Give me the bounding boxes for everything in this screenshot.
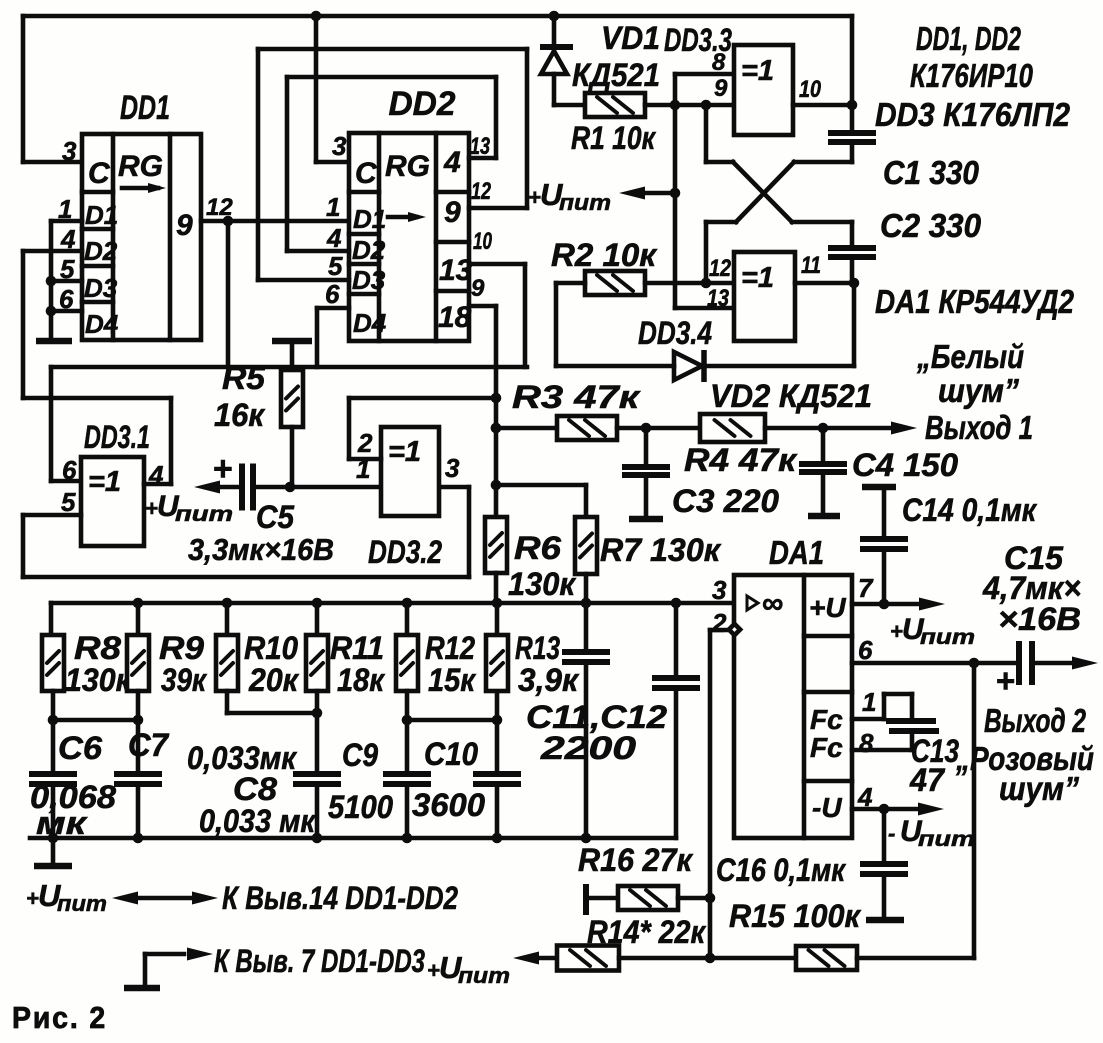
wire R14 left lead bbox=[532, 956, 557, 961]
node bus junction R12 bbox=[402, 598, 413, 609]
resistor R12 bbox=[396, 635, 418, 691]
node +Uпит junction bbox=[670, 188, 681, 199]
svg-text:RG: RG bbox=[118, 150, 163, 183]
svg-text:RG: RG bbox=[385, 150, 430, 183]
label C6 bbox=[58, 730, 102, 766]
wire DD2 pin6 D4 tap bbox=[317, 308, 349, 367]
wire DA1 pin6 output bbox=[852, 661, 1015, 666]
svg-text:6: 6 bbox=[858, 635, 873, 665]
svg-text:D1: D1 bbox=[353, 204, 386, 234]
pin 7 label DA1 bbox=[858, 573, 874, 603]
double arrow to DD supply bbox=[112, 892, 218, 905]
svg-text:×16В: ×16В bbox=[998, 601, 1081, 637]
wire R12 bottom bbox=[405, 691, 410, 720]
wire DD1 output pin9 to DD2 D1 bbox=[201, 219, 349, 224]
resistor R7 bbox=[575, 517, 597, 574]
svg-text:R1 10к: R1 10к bbox=[571, 120, 656, 156]
svg-text:2200: 2200 bbox=[540, 730, 637, 766]
svg-text:C16 0,1мк: C16 0,1мк bbox=[716, 852, 847, 888]
node DD3.3 pin9 junction bbox=[701, 100, 712, 111]
xor gate DD3.1 bbox=[81, 419, 150, 546]
label C4 150 bbox=[852, 447, 958, 483]
pin 11 label DD3.4 bbox=[801, 252, 821, 279]
wire DD3.1 pin5 from DD3.2 output bbox=[23, 487, 469, 577]
chassis bar above R5 bbox=[272, 341, 312, 370]
label C7 bbox=[128, 727, 170, 763]
shift register DD2 bbox=[349, 85, 473, 341]
svg-text:6: 6 bbox=[62, 455, 77, 485]
wire DD3.2 pin2 loop from out18 column bbox=[349, 398, 496, 459]
wire DD1 D1-D4 common vertical bbox=[49, 221, 54, 338]
svg-text:R4 47к: R4 47к bbox=[684, 442, 798, 478]
svg-text:D4: D4 bbox=[85, 309, 119, 339]
label C15 bbox=[1004, 540, 1064, 576]
label C2 330 bbox=[880, 207, 982, 244]
svg-text:К Выв.14 DD1-DD2: К Выв.14 DD1-DD2 bbox=[222, 880, 458, 916]
svg-text:3: 3 bbox=[332, 131, 347, 161]
capacitor C14 bbox=[860, 487, 908, 604]
svg-text:шум”: шум” bbox=[999, 770, 1079, 807]
label C16 0,1мк bbox=[716, 852, 847, 888]
pin 12 label DD2 out9 bbox=[471, 178, 491, 205]
wire DD2 out18 column bbox=[469, 306, 496, 517]
svg-text:R12: R12 bbox=[425, 630, 475, 666]
wire R7 bottom bbox=[584, 574, 589, 603]
node R16 junction bbox=[705, 893, 716, 904]
pin 1 label DD2 bbox=[326, 192, 340, 222]
node bus junction C12 bbox=[671, 598, 682, 609]
svg-text:Выход 1: Выход 1 bbox=[925, 409, 1033, 446]
label R7 130к bbox=[600, 532, 722, 568]
label R11 bbox=[330, 630, 384, 666]
svg-text:Выход 2: Выход 2 bbox=[984, 702, 1086, 739]
wire DD1 pin6 D4 bbox=[51, 309, 82, 314]
node R11 C8 junction bbox=[312, 708, 323, 719]
svg-text:5: 5 bbox=[328, 251, 343, 281]
svg-text:+U: +U bbox=[809, 592, 846, 623]
svg-text:13: 13 bbox=[707, 285, 730, 312]
resistor R10 bbox=[216, 635, 238, 691]
label К176ИР10 bbox=[910, 57, 1033, 94]
caption Рис. 2 bbox=[12, 1000, 107, 1035]
svg-text:130к: 130к bbox=[65, 662, 133, 698]
wire R5 bottom bbox=[290, 427, 295, 487]
svg-text:DA1: DA1 bbox=[769, 534, 824, 571]
svg-text:5100: 5100 bbox=[328, 789, 393, 825]
arrow output 1 bbox=[891, 422, 917, 435]
svg-text:9: 9 bbox=[714, 75, 728, 102]
svg-text:R11: R11 bbox=[330, 630, 384, 666]
svg-text:R16 27к: R16 27к bbox=[578, 842, 694, 878]
label +Uпит pin7 bbox=[890, 613, 975, 649]
label C7 value bbox=[187, 740, 298, 776]
wire DD3.4 output down to VD2 line bbox=[708, 283, 854, 366]
label C11 C12 bbox=[526, 699, 667, 735]
svg-text:9: 9 bbox=[444, 196, 461, 229]
label R12 bbox=[425, 630, 475, 666]
label R9 bbox=[159, 630, 204, 666]
pin 6 label DD3.1 bbox=[62, 455, 77, 485]
label R4 47к bbox=[684, 442, 798, 478]
pin 8 label DD3.3 bbox=[712, 49, 726, 76]
svg-text:C3 220: C3 220 bbox=[672, 483, 779, 519]
op-amp DA1 bbox=[734, 534, 852, 838]
wire bottom bus bbox=[30, 836, 676, 841]
resistor R9 bbox=[127, 635, 149, 691]
pin 3 label DD2 bbox=[332, 131, 347, 161]
label R6 bbox=[514, 530, 561, 566]
label C10 bbox=[424, 736, 478, 772]
svg-text:Fc: Fc bbox=[810, 704, 843, 735]
wire out18 column to R3 bbox=[496, 426, 557, 431]
label C3 220 bbox=[672, 483, 779, 519]
wire top rail right corner down to DD3.3 output bbox=[850, 16, 855, 105]
svg-text:R13: R13 bbox=[515, 630, 560, 666]
svg-text:15к: 15к bbox=[428, 662, 477, 698]
label C8 bbox=[233, 771, 277, 807]
label R8 bbox=[74, 630, 121, 666]
pin 13 label DD2 out4 bbox=[470, 133, 490, 160]
wire ground к выв 7 bbox=[124, 954, 184, 988]
pin 9 label DD2 out18 bbox=[471, 275, 485, 302]
label VD1 type КД521 bbox=[572, 57, 660, 93]
svg-text:3600: 3600 bbox=[412, 787, 485, 823]
resistor R8 bbox=[42, 635, 64, 691]
label C15 value1 bbox=[982, 570, 1081, 606]
pin 5 label DD3.1 bbox=[61, 487, 76, 517]
wire tap line bbox=[51, 365, 527, 370]
wire R12 top stub bbox=[405, 603, 410, 635]
svg-text:Fc: Fc bbox=[810, 732, 843, 763]
wire DD1 pin4 D2 from feedback bbox=[23, 249, 82, 254]
wire +U column corner to DD3.4 pin13 bbox=[675, 306, 734, 311]
label R15 100к bbox=[729, 898, 862, 934]
polarity plus of C15 bbox=[996, 662, 1015, 699]
svg-text:1: 1 bbox=[326, 192, 340, 222]
svg-text:R10: R10 bbox=[244, 630, 298, 666]
svg-text:C4 150: C4 150 bbox=[852, 447, 958, 483]
svg-text:R9: R9 bbox=[159, 630, 204, 666]
label +Uпит R14 bbox=[427, 950, 510, 988]
pin 6 label DA1 bbox=[858, 635, 873, 665]
svg-text:DD3.4: DD3.4 bbox=[638, 315, 712, 351]
resistor R16 bbox=[618, 886, 678, 910]
svg-text:пит: пит bbox=[57, 891, 107, 916]
pin 4 label DD3.1 bbox=[148, 460, 164, 490]
svg-text:DD3 К176ЛП2: DD3 К176ЛП2 bbox=[875, 96, 1071, 133]
label C6 value bbox=[30, 779, 116, 841]
svg-text:9: 9 bbox=[176, 209, 193, 242]
svg-text:8: 8 bbox=[859, 728, 874, 758]
pin 10 label DD2 out13 bbox=[473, 228, 492, 255]
wire R13 bottom bbox=[495, 692, 500, 720]
label C8 value bbox=[199, 803, 317, 839]
node DD3.4 pin12 junction bbox=[701, 278, 712, 289]
wire R10 top stub bbox=[225, 603, 230, 635]
label +Uпит bottom left bbox=[26, 878, 107, 916]
node bus junction R11 bbox=[312, 598, 323, 609]
svg-text:6: 6 bbox=[325, 279, 340, 309]
label R10 value bbox=[248, 662, 300, 698]
svg-text:VD2 КД521: VD2 КД521 bbox=[710, 378, 872, 414]
wire R11 top stub bbox=[315, 603, 320, 635]
wire R1 to DD3.3 pin9 bbox=[645, 103, 734, 108]
svg-text:пит: пит bbox=[175, 503, 233, 526]
label VD2 КД521 bbox=[710, 378, 872, 414]
svg-text:C7: C7 bbox=[128, 727, 170, 763]
pin 6 label DD1 bbox=[59, 284, 74, 314]
node DD1 pin5 junction bbox=[46, 276, 57, 287]
label C9 value bbox=[328, 789, 393, 825]
pin 12 label DD3.4 bbox=[709, 255, 732, 282]
node R5-C5 junction bbox=[285, 482, 296, 493]
node bottom bus x53 bbox=[48, 833, 59, 844]
resistor R14 bbox=[557, 946, 619, 971]
pin 1 label DA1 bbox=[862, 687, 876, 717]
wire DA1 pin4 bbox=[852, 807, 918, 812]
svg-text:C: C bbox=[355, 157, 378, 190]
label C13 bbox=[911, 733, 959, 769]
pin 8 label DA1 bbox=[859, 728, 874, 758]
resistor R1 bbox=[585, 93, 645, 117]
pin 6 label DD2 bbox=[325, 279, 340, 309]
svg-text:DD1: DD1 bbox=[120, 89, 170, 127]
svg-text:3: 3 bbox=[712, 575, 727, 605]
svg-text:18к: 18к bbox=[337, 662, 386, 698]
wire DD2 out13 drop to tap line bbox=[469, 264, 525, 367]
wire R16 left lead bbox=[589, 896, 618, 901]
label +Uпит top bbox=[528, 177, 611, 215]
node bottom bus x497 bbox=[492, 833, 503, 844]
wire R16 right lead bbox=[678, 896, 710, 901]
svg-text:D3: D3 bbox=[84, 273, 118, 303]
wire R6 bottom bbox=[494, 573, 499, 603]
label white noise line1 bbox=[916, 338, 1024, 375]
wire R6 R7 top link bbox=[496, 485, 586, 517]
svg-text:R2 10к: R2 10к bbox=[551, 237, 658, 273]
svg-text:мк: мк bbox=[36, 805, 88, 841]
node C3 junction bbox=[641, 423, 652, 434]
wire C15 to output 2 bbox=[1036, 661, 1077, 666]
wire DA1 pin8 loop bbox=[852, 733, 912, 750]
node bottom bus x407 bbox=[402, 833, 413, 844]
svg-text:3,3мк×16В: 3,3мк×16В bbox=[188, 532, 334, 567]
label R5 value 16к bbox=[214, 397, 266, 433]
svg-text:12: 12 bbox=[471, 178, 491, 205]
capacitor C3 bbox=[622, 428, 670, 519]
wire DA1 pin7 bbox=[852, 602, 922, 607]
resistor R5 bbox=[281, 370, 303, 427]
svg-text:1: 1 bbox=[862, 687, 876, 717]
node R1 right junction bbox=[670, 100, 681, 111]
capacitor C10 bbox=[473, 720, 521, 838]
arrow +Uпит R14 bbox=[513, 952, 539, 965]
svg-text:пит: пит bbox=[918, 828, 975, 851]
svg-text:DD2: DD2 bbox=[389, 85, 456, 123]
svg-text:3,9к: 3,9к bbox=[518, 662, 580, 698]
svg-text:пит: пит bbox=[458, 963, 510, 988]
capacitor C15 bbox=[1019, 641, 1032, 685]
svg-text:„Белый: „Белый bbox=[916, 338, 1024, 375]
label К Выв.7 DD1-DD3 bbox=[214, 943, 425, 979]
svg-text:DA1 КР544УД2: DA1 КР544УД2 bbox=[875, 283, 1075, 320]
resistor R4 bbox=[700, 414, 765, 442]
label C11 C12 value 2200 bbox=[540, 730, 637, 766]
inverting input mark bbox=[729, 624, 740, 635]
svg-text:К176ИР10: К176ИР10 bbox=[910, 57, 1033, 94]
pin 2 label DD3.2 bbox=[357, 428, 373, 458]
pin 13 label DD3.4 bbox=[707, 285, 730, 312]
arrow output 2 bbox=[1072, 657, 1098, 670]
capacitor C6 bbox=[29, 720, 77, 838]
svg-text:0,033 мк: 0,033 мк bbox=[199, 803, 317, 839]
label C15 value2 bbox=[998, 601, 1081, 637]
label Выход 2 bbox=[984, 702, 1086, 739]
wire tap drop to DD3.1 pin6 bbox=[51, 367, 81, 481]
node C4 junction bbox=[818, 423, 829, 434]
svg-text:C: C bbox=[88, 157, 111, 190]
node bus junction C11 bbox=[581, 598, 592, 609]
svg-text:4: 4 bbox=[326, 223, 342, 253]
wire R4 to output 1 bbox=[765, 426, 896, 431]
label pink noise line2 bbox=[999, 770, 1079, 807]
wire left drop to DD1 pin3 bbox=[23, 16, 82, 162]
label DD1,DD2 bbox=[916, 20, 1021, 57]
svg-text:16к: 16к bbox=[214, 397, 266, 433]
svg-text:20к: 20к bbox=[248, 662, 300, 698]
label C9 bbox=[342, 737, 378, 773]
pin 4 label DD1 bbox=[60, 224, 76, 254]
wire R8 bottom bbox=[51, 691, 56, 720]
label C10 value bbox=[412, 787, 485, 823]
pin 1 label DD1 bbox=[58, 194, 72, 224]
svg-text:D3: D3 bbox=[352, 265, 386, 295]
capacitor C1 bbox=[828, 105, 876, 162]
wire DD1 pin1 D1 bbox=[51, 219, 82, 224]
node pin7 junction bbox=[879, 599, 890, 610]
terminal bar R16 left bbox=[583, 884, 589, 915]
svg-text:=1: =1 bbox=[88, 466, 121, 498]
wire R13 top stub bbox=[495, 603, 500, 635]
capacitor C11 bbox=[562, 603, 610, 838]
wire link R12-R13 node bbox=[407, 718, 497, 723]
capacitor C4 bbox=[799, 428, 847, 516]
node bus junction R10 bbox=[222, 598, 233, 609]
svg-text:+: + bbox=[996, 662, 1015, 699]
svg-text:47: 47 bbox=[909, 762, 946, 798]
label C5 bbox=[256, 499, 295, 535]
svg-text:D2: D2 bbox=[84, 236, 118, 266]
svg-text:4: 4 bbox=[443, 146, 461, 179]
wire R2 left to VD2 line bbox=[556, 283, 585, 366]
svg-text:7: 7 bbox=[858, 573, 874, 603]
label R3 47к bbox=[512, 379, 641, 415]
svg-text:=1: =1 bbox=[741, 55, 774, 87]
wire DA1 pin2 down bbox=[710, 630, 734, 958]
wire VD1 to R1 bbox=[554, 103, 585, 108]
ground bar below DD1 bbox=[36, 338, 72, 345]
wire R14 to R15 bbox=[619, 956, 796, 961]
svg-text:R15 100к: R15 100к bbox=[729, 898, 862, 934]
label К Выв.14 DD1-DD2 bbox=[222, 880, 458, 916]
node pin6 junction bbox=[969, 658, 980, 669]
wire R10 bottom step bbox=[227, 691, 317, 713]
node junction top rail x554 bbox=[549, 11, 560, 22]
node bottom bus x138 bbox=[133, 833, 144, 844]
svg-text:C6: C6 bbox=[58, 730, 102, 766]
chassis bar bottom left bbox=[34, 863, 72, 870]
node bottom bus x317 bbox=[312, 833, 323, 844]
wire R8 top stub bbox=[49, 603, 54, 635]
label R9 value bbox=[161, 662, 208, 698]
wire DD3.3 pin8 stub bbox=[675, 72, 734, 77]
pin 10 label DD3.3 bbox=[799, 76, 822, 103]
wire DD3.3 output pin10 bbox=[793, 103, 852, 108]
xor gate DD3.2 bbox=[368, 427, 442, 570]
label pink noise line1 bbox=[955, 740, 1094, 777]
svg-text:D2: D2 bbox=[352, 235, 386, 265]
node R3 left junction bbox=[491, 423, 502, 434]
wire link R8-R9 node bbox=[53, 718, 138, 723]
label R8 value bbox=[65, 662, 133, 698]
svg-text:R5: R5 bbox=[222, 360, 266, 396]
label VD1 bbox=[601, 20, 660, 56]
label C14 0,1мк bbox=[902, 492, 1038, 528]
pin 1 label DD3.2 bbox=[356, 454, 370, 484]
svg-text:шум”: шум” bbox=[938, 372, 1019, 409]
pin 9 label DD3.3 bbox=[714, 75, 728, 102]
wire R3 to R4 bbox=[617, 426, 700, 431]
svg-text:R14* 22к: R14* 22к bbox=[587, 914, 707, 950]
arrow +Uпит pin7 bbox=[919, 598, 945, 611]
svg-text:D1: D1 bbox=[85, 200, 118, 230]
pin 4 label DD2 bbox=[326, 223, 342, 253]
diode VD2 bbox=[556, 350, 704, 382]
svg-text:DD3.2: DD3.2 bbox=[368, 534, 442, 570]
node R9 C7 junction bbox=[133, 715, 144, 726]
svg-text:10: 10 bbox=[799, 76, 822, 103]
node pin4 junction bbox=[879, 804, 890, 815]
wire R9 top stub bbox=[136, 603, 141, 635]
svg-text:R3 47к: R3 47к bbox=[512, 379, 641, 415]
label DA1 КР544УД2 bbox=[875, 283, 1075, 320]
svg-text:C1 330: C1 330 bbox=[883, 154, 980, 191]
label R6 value 130к bbox=[508, 566, 577, 602]
label -Uпит pin4 bbox=[888, 815, 975, 851]
xor gate DD3.3 bbox=[664, 22, 793, 135]
svg-text:10: 10 bbox=[473, 228, 492, 255]
svg-text:12: 12 bbox=[709, 255, 732, 282]
pin 5 label DD1 bbox=[60, 254, 75, 284]
label R16 27к bbox=[578, 842, 694, 878]
shift register DD1 bbox=[82, 89, 201, 340]
pin 3 label DD1 bbox=[62, 136, 77, 166]
node DD1 output junction bbox=[223, 216, 234, 227]
svg-text:C5: C5 bbox=[256, 499, 295, 535]
resistor R6 bbox=[485, 517, 507, 573]
pin 5 label DD2 bbox=[328, 251, 343, 281]
label R5 bbox=[222, 360, 266, 396]
svg-text:VD1: VD1 bbox=[601, 20, 660, 56]
svg-text:+: + bbox=[213, 450, 233, 488]
wire cross from DD3.3 pin9 to C2 bbox=[706, 105, 852, 245]
capacitor C7 bbox=[114, 720, 162, 838]
node DD3.3 output junction bbox=[847, 100, 858, 111]
label R14 22к bbox=[587, 914, 707, 950]
wire DD1 pin5 D3 bbox=[51, 279, 82, 284]
node R12 C9 junction bbox=[402, 715, 413, 726]
pin 12 label DD1 output bbox=[206, 194, 233, 221]
